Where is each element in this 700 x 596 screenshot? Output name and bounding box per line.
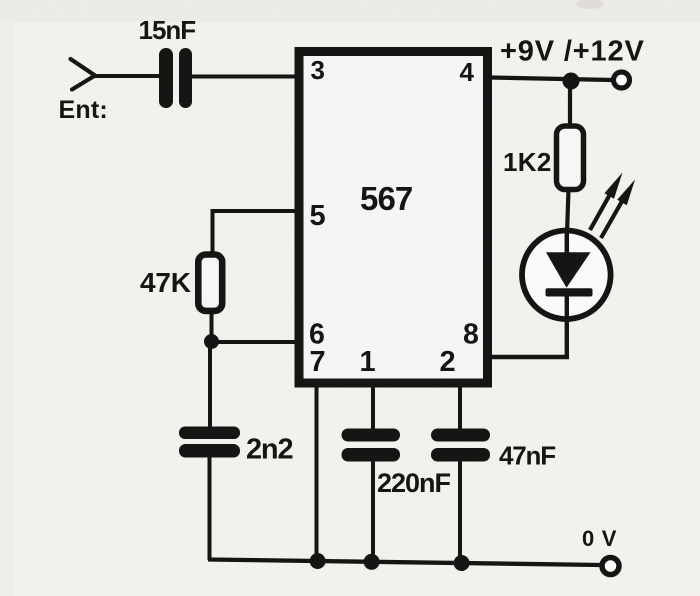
wire capacitor 2n2 to ground rail [208,457,212,560]
svg-text:7: 7 [310,346,326,378]
wire supply junction to resistor 1K2 [568,81,572,127]
svg-text:567: 567 [360,180,412,217]
scan texture [0,0,1,1]
svg-text:+9V /+12V: +9V /+12V [500,36,645,68]
capacitor C 15nF [159,48,192,108]
svg-text:1: 1 [360,346,376,378]
wire pin 4 to supply junction [490,78,613,81]
LED anode wire [565,230,570,254]
LED cathode bar [546,288,593,296]
wire pin 1 to capacitor 220nF [371,384,375,429]
ground terminal 0V [602,558,619,575]
ground rail 0V [208,560,601,566]
svg-text:8: 8 [463,319,479,351]
resistor R 1K2 [557,126,584,190]
svg-text:3: 3 [311,55,325,85]
LED light arrow 1 [590,173,623,231]
capacitor C 47nF [431,429,490,462]
LED light arrow 2 [601,180,635,239]
capacitor C 220nF [342,429,401,462]
svg-text:2n2: 2n2 [246,434,292,466]
wire capacitor 47nF to ground rail [458,461,462,563]
svg-text:5: 5 [310,200,326,232]
svg-text:2: 2 [440,346,456,378]
svg-text:4: 4 [460,57,475,87]
wire pin 5 to resistor 47K [213,211,299,252]
svg-text:Ent:: Ent: [59,96,108,124]
svg-text:1K2: 1K2 [503,147,552,177]
wire input to capacitor 15nF [93,74,161,78]
svg-text:15nF: 15nF [139,15,196,45]
svg-text:0V: 0V [582,526,624,551]
wire junction to pin 6 [212,340,299,344]
svg-text:220nF: 220nF [377,468,451,498]
svg-text:47K: 47K [140,267,191,298]
junction node rail 220nF [364,554,380,570]
LED triangle [546,252,591,287]
LED D1 circle [522,230,611,319]
input terminal chevron (Ent:) [71,59,96,90]
wire pin 7 down [315,384,319,561]
wire junction down to capacitor 2n2 [208,341,212,427]
supply terminal +9V/+12V [614,72,630,88]
junction node rail pin7 [310,553,326,569]
wire resistor 47K to junction [210,313,214,341]
wire capacitor 220nF to ground rail [371,461,375,562]
wire resistor 1K2 to LED [567,190,569,234]
capacitor C 2n2 [179,427,240,458]
junction node supply [563,73,580,90]
junction node rail 47nF [454,555,470,571]
wire pin 2 to capacitor 47nF [458,384,462,429]
wire capacitor to pin 3 [190,75,298,79]
wire LED cathode to pin 8 [492,296,567,357]
IC U1 567 body [299,52,488,384]
resistor R 47K [198,255,222,311]
svg-text:47nF: 47nF [499,441,555,471]
junction node pin6 [204,334,219,349]
